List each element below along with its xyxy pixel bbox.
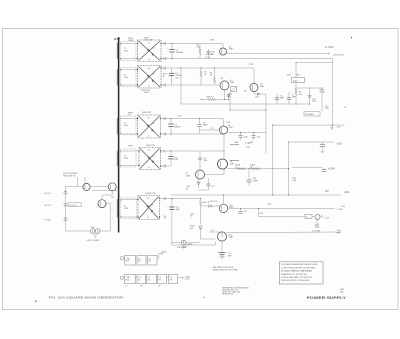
- node boxed 115V 60 label: [68, 203, 81, 207]
- svg-text:R4A 1K: R4A 1K: [207, 96, 214, 99]
- node +5V out: [325, 191, 350, 194]
- label FWB CR2 below: [141, 90, 151, 94]
- wire Q11 bottom cap: [221, 241, 223, 252]
- caption figure: [49, 297, 124, 300]
- wire feed v85: [84, 177, 86, 183]
- label FWB CR1: [144, 37, 154, 41]
- filter box FL7: [158, 274, 167, 283]
- svg-text:R4C: R4C: [126, 279, 131, 281]
- svg-text:SERIES 102: SERIES 102: [222, 293, 234, 295]
- wire right leg: [106, 204, 110, 231]
- terminal strip1 input: [120, 257, 123, 260]
- svg-text:+180V: +180V: [161, 252, 168, 254]
- label FWB CR4: [146, 145, 156, 147]
- node -24V RET label row1 left: [205, 54, 215, 59]
- capacitor C8A on Q7 feed: [198, 151, 208, 170]
- wire h88: [296, 87, 322, 89]
- label FWB CR3: [142, 112, 152, 114]
- node primary lead labels row5: [111, 197, 115, 220]
- wire winding row4 bottom: [119, 165, 139, 167]
- lamp DS3 b: [95, 229, 100, 234]
- svg-text:1 TB2: 1 TB2: [248, 64, 254, 66]
- terminal strip2 input: [120, 276, 123, 279]
- node 2AMP label row5: [186, 243, 194, 246]
- svg-text:+24V: +24V: [267, 204, 272, 206]
- svg-text:1 TB1: 1 TB1: [205, 57, 211, 59]
- potentiometer R7 +12V ADJ: [228, 87, 237, 98]
- svg-text:DS2 LAMP: DS2 LAMP: [177, 246, 188, 249]
- label PWR XFMR row3: [128, 112, 133, 116]
- svg-text:MOT B: MOT B: [45, 193, 52, 195]
- wire row2 bottom: [161, 84, 220, 86]
- svg-text:1 2AMP: 1 2AMP: [186, 243, 194, 246]
- bridge rectifier CR2: [138, 66, 162, 89]
- resistor R15B: [250, 164, 260, 169]
- wire winding row2 bottom: [119, 84, 138, 86]
- svg-text:FWB CR4: FWB CR4: [146, 145, 156, 147]
- note revision block: [222, 286, 249, 295]
- transistor Q9: [98, 200, 106, 208]
- capacitor C3 300MF: [168, 119, 181, 135]
- capacitor C11: [166, 206, 180, 211]
- node row2 misc labels: [244, 91, 260, 99]
- bridge rectifier CR3: [138, 115, 161, 138]
- node +15V out: [336, 142, 342, 145]
- svg-text:F GND: F GND: [45, 220, 52, 222]
- wire bottom leg: [66, 230, 111, 232]
- capacitor C1 3300MF: [167, 43, 184, 59]
- capacitor C13 on +15VA: [322, 167, 336, 171]
- wire V1: [265, 94, 267, 153]
- junction dots: [171, 62, 334, 220]
- svg-text:+24V: +24V: [340, 206, 345, 208]
- svg-text:115V: 115V: [124, 50, 129, 52]
- svg-text:CONDITIONS SHOWN ON UNIT AND: CONDITIONS SHOWN ON UNIT AND: [281, 266, 316, 269]
- svg-text:-12V: -12V: [337, 127, 342, 129]
- main 115V primary bus: [118, 37, 120, 233]
- svg-text:115V: 115V: [114, 37, 121, 41]
- label FWB CR5: [145, 193, 157, 195]
- transistor Q4: [220, 77, 235, 90]
- wire stub x258: [258, 208, 260, 216]
- diode CR17: [201, 201, 220, 207]
- note box voltages: [279, 262, 323, 284]
- svg-text:15MF: 15MF: [253, 180, 259, 182]
- label PWR XFMR: [128, 38, 134, 42]
- filter box FL4: [125, 274, 136, 283]
- capacitor C16: [239, 208, 248, 213]
- svg-text:5.6V: 5.6V: [190, 228, 195, 230]
- label low voltage regulator: [63, 172, 78, 177]
- transistor Q2: [83, 183, 90, 190]
- resistor R15A: [235, 163, 246, 169]
- resistor R5: [210, 68, 216, 84]
- wire row2 return rail: [181, 103, 310, 105]
- inductor L1 box: [305, 214, 312, 218]
- svg-text:REG ADJ: REG ADJ: [306, 113, 315, 116]
- svg-text:+24V: +24V: [185, 279, 190, 281]
- wire vertical feed x181: [180, 68, 182, 104]
- transistor Q3: [108, 183, 116, 191]
- svg-text:115V: 115V: [124, 208, 129, 210]
- svg-text:6.8V: 6.8V: [312, 101, 317, 103]
- filter box FL1: [125, 256, 136, 266]
- capacitor C2 750MF: [169, 68, 183, 85]
- wire Q3 to Q9: [102, 191, 112, 200]
- wire Q7-Q8: [205, 169, 225, 175]
- node +15V label: [177, 115, 182, 117]
- node page number: [204, 297, 206, 300]
- capacitor C5: [168, 151, 179, 166]
- transistor Q10: [219, 195, 234, 213]
- wire feed v77: [76, 178, 78, 187]
- wire winding row4 top: [119, 150, 139, 152]
- capacitor C10: [249, 132, 261, 143]
- zener CR5: [207, 49, 216, 56]
- svg-text:4 TB2: 4 TB2: [337, 209, 343, 211]
- transformer T3 winding block: [120, 116, 136, 135]
- wire lower row2: [201, 90, 229, 100]
- svg-text:115V: 115V: [124, 125, 129, 127]
- transistor Q8: [218, 143, 252, 169]
- svg-text:+5VA: +5VA: [344, 191, 350, 194]
- wire +5V rail: [171, 194, 341, 196]
- svg-text:+15V: +15V: [336, 142, 342, 145]
- transistor Q5: [250, 84, 265, 92]
- bridge CR1 corner dots: [137, 43, 162, 59]
- wire link pot to L1: [229, 92, 231, 111]
- node DS3 label: [91, 227, 96, 229]
- wire +15VA rail: [292, 167, 322, 169]
- capacitor C9: [235, 132, 249, 143]
- bridge rectifier CR4: [139, 148, 161, 170]
- svg-text:+12M: +12M: [228, 127, 233, 129]
- resistor R16: [191, 199, 210, 225]
- wire L1: [230, 109, 266, 111]
- node 1 TB2: [248, 64, 254, 66]
- node +180V out: [159, 252, 168, 259]
- capacitor C12 on +15V: [320, 142, 325, 153]
- transformer primary winding thickening: [116, 43, 118, 218]
- filter box FL6: [147, 274, 157, 283]
- svg-text:+MOD SON: +MOD SON: [333, 54, 344, 56]
- svg-text:115V 60: 115V 60: [69, 205, 77, 207]
- transistor Q6: [220, 122, 233, 134]
- capacitor C4 tantalum: [197, 119, 208, 135]
- node TB2 out: [181, 276, 191, 280]
- node LOW POWER label: [87, 240, 100, 242]
- transformer T1 winding block: [120, 42, 136, 61]
- box regulator adj label: [304, 112, 320, 117]
- svg-text:LOW POWER: LOW POWER: [87, 240, 100, 242]
- svg-text:300MF: 300MF: [174, 127, 181, 129]
- note parts list: [213, 266, 239, 271]
- node +24V label: [267, 107, 348, 211]
- resistor R4A horizontal: [207, 96, 217, 101]
- svg-text:R1C: R1C: [126, 261, 131, 263]
- svg-text:REGULATOR: REGULATOR: [63, 175, 76, 178]
- ground below C14: [220, 257, 225, 259]
- lamp DS3 a: [90, 229, 95, 234]
- bridge rectifier CR5: [138, 196, 160, 220]
- diode CR7: [254, 92, 266, 96]
- connector break marks: [164, 150, 166, 153]
- wire winding row5 bottom: [119, 216, 138, 218]
- filter box FL5: [137, 274, 146, 283]
- wire DS column: [295, 63, 297, 88]
- ground DS3: [93, 233, 97, 237]
- ground -12V: [330, 125, 341, 129]
- wire row4 bottom out: [161, 165, 172, 167]
- svg-text:+7 VDC: +7 VDC: [325, 45, 334, 49]
- node corner mark: [35, 301, 37, 303]
- bridge CR4 corner dots: [138, 150, 161, 166]
- transistor Q11: [217, 232, 234, 241]
- lamp DS1 NE-2: [287, 74, 305, 82]
- node +7 VDC output: [325, 45, 345, 56]
- wire row4 top out: [161, 150, 225, 152]
- title small ref: [340, 288, 345, 293]
- transistor Q1: [220, 46, 235, 55]
- wire h245: [172, 241, 216, 245]
- svg-text:+15VA: +15VA: [328, 167, 336, 170]
- transformer T2 winding block: [120, 68, 136, 87]
- zener CR6: [227, 93, 230, 100]
- terminal J2: [45, 203, 68, 207]
- wire +15V rail: [289, 141, 335, 143]
- svg-text:W 20,000 OHM/VOLT METER ALL: W 20,000 OHM/VOLT METER ALL: [281, 270, 313, 273]
- terminal J1: [45, 191, 68, 195]
- wire +24V fuse rail: [259, 216, 306, 218]
- zener CR16: [190, 226, 216, 239]
- svg-text:C5A: C5A: [292, 179, 297, 182]
- wire right box edge: [332, 59, 334, 126]
- transistor Q7: [186, 170, 205, 179]
- svg-text:UNLESS NOTED OTHERWISE: UNLESS NOTED OTHERWISE: [281, 280, 310, 282]
- wire Q8 emitter rail: [228, 168, 289, 170]
- wire down x171: [171, 199, 173, 246]
- wire row3 rail: [227, 131, 266, 133]
- svg-text:+24V: +24V: [325, 218, 330, 220]
- svg-text:+15V: +15V: [177, 115, 182, 117]
- resistor R8: [295, 88, 297, 104]
- filter box FL2: [137, 256, 146, 266]
- bridge CR5 corner dots: [137, 198, 160, 218]
- wire strip1 links: [124, 257, 159, 259]
- zener CR11: [186, 179, 200, 190]
- wire +24V rail: [228, 207, 335, 209]
- wire strip2 links: [124, 277, 182, 279]
- wire V2: [272, 125, 274, 195]
- node winding terminal ticks: [120, 44, 121, 86]
- wire winding row3 top: [119, 118, 138, 120]
- svg-text:FIG. 10A SQUARE WAVE GENERATOR: FIG. 10A SQUARE WAVE GENERATOR: [49, 297, 124, 300]
- svg-text:4 TB2: 4 TB2: [245, 143, 251, 145]
- node 1 TB1: [209, 40, 215, 42]
- svg-text:NOTED. MAY VARY 20 PERCENT: NOTED. MAY VARY 20 PERCENT: [281, 276, 313, 279]
- capacitor C14: [219, 253, 233, 258]
- svg-text:TANT: TANT: [203, 124, 209, 127]
- connector ACF: [163, 73, 168, 78]
- node strip2 footnotes: [125, 286, 161, 288]
- wire row2 top rail: [161, 68, 254, 84]
- capacitor C7: [287, 92, 297, 104]
- wire winding row1 bottom: [119, 58, 138, 60]
- filter box FL3: [148, 256, 158, 266]
- lamp DS2: [177, 240, 188, 249]
- capacitor C17: [312, 219, 321, 232]
- label PWR row4: [128, 145, 133, 147]
- wire row3 bottom out: [161, 133, 225, 135]
- svg-text:115V: 115V: [124, 158, 129, 160]
- resistor R2: [200, 68, 208, 85]
- wire winding row5 top: [119, 199, 138, 201]
- wire row3 top out: [161, 119, 224, 127]
- svg-text:READINGS DC EXCEPT AS: READINGS DC EXCEPT AS: [281, 273, 307, 276]
- wire row1 emitter rail +7V: [227, 53, 327, 55]
- svg-text:3 FWB CR5: 3 FWB CR5: [145, 193, 157, 195]
- svg-text:115V: 115V: [124, 77, 129, 79]
- sheet mark 4: [351, 37, 352, 38]
- bridge CR2 corner dots: [137, 67, 162, 85]
- svg-text:VOLTAGES MEASURED UNDER LOAD: VOLTAGES MEASURED UNDER LOAD: [281, 263, 318, 266]
- node +5A labels: [292, 177, 297, 182]
- svg-text:XFMR: XFMR: [128, 40, 134, 42]
- resistor R1: [196, 44, 201, 59]
- wire top link rail: [296, 62, 333, 64]
- title POWER SUPPLY: [307, 295, 347, 300]
- node TB2 stubs: [230, 145, 251, 161]
- wire lamp row: [172, 242, 201, 244]
- connector tick pairs: [164, 42, 166, 219]
- wire winding row2 top: [119, 69, 138, 71]
- terminal J3: [45, 218, 68, 222]
- bridge CR3 corner dots: [137, 118, 161, 135]
- wire row1 out bottom rail: [161, 58, 333, 60]
- wire +5 feed vertical: [288, 142, 290, 195]
- capacitor C8: [320, 88, 330, 112]
- zener CR9: [308, 88, 311, 104]
- wire under Q7: [199, 189, 209, 191]
- capacitor C11A: [207, 178, 215, 190]
- capacitor C6: [275, 94, 285, 104]
- svg-text:MOT A: MOT A: [45, 204, 52, 207]
- wire subcircuit top: [66, 185, 109, 187]
- svg-text:POWER SUPPLY: POWER SUPPLY: [307, 295, 347, 300]
- svg-text:PWR: PWR: [128, 145, 133, 147]
- filter box FL8: [169, 274, 178, 283]
- transformer T4 winding block: [120, 149, 136, 168]
- wire -12V rail: [273, 124, 345, 126]
- transformer T5 winding block: [120, 198, 136, 219]
- node row5 wire labels: [211, 213, 265, 232]
- node 115V bus top label: [114, 37, 121, 41]
- wire left leg: [65, 186, 67, 231]
- svg-text:SEMICONDUCTOR TYPES: SEMICONDUCTOR TYPES: [213, 269, 239, 271]
- wire row5 top out: [160, 198, 201, 200]
- wire row1 out top: [161, 44, 223, 49]
- svg-text:1 TB1: 1 TB1: [209, 40, 215, 42]
- wire row3-4 link vertical: [223, 134, 225, 159]
- wire winding row3 bottom: [119, 133, 138, 135]
- capacitor C15: [247, 169, 259, 186]
- svg-text:+5V: +5V: [325, 191, 330, 193]
- svg-text:-24V RET: -24V RET: [205, 54, 215, 56]
- wire -24V rail: [209, 230, 342, 234]
- node DS column extra labels: [299, 92, 317, 104]
- svg-text:3300MF: 3300MF: [176, 52, 184, 54]
- wire winding row1 top: [119, 43, 138, 45]
- wire Q9 top to bus: [92, 189, 119, 191]
- fuse F1: [312, 214, 330, 219]
- svg-text:FWB CR3: FWB CR3: [142, 112, 152, 114]
- svg-text:C1A: C1A: [244, 135, 249, 138]
- bridge rectifier CR1: [138, 40, 162, 62]
- wire into Q6: [200, 128, 220, 130]
